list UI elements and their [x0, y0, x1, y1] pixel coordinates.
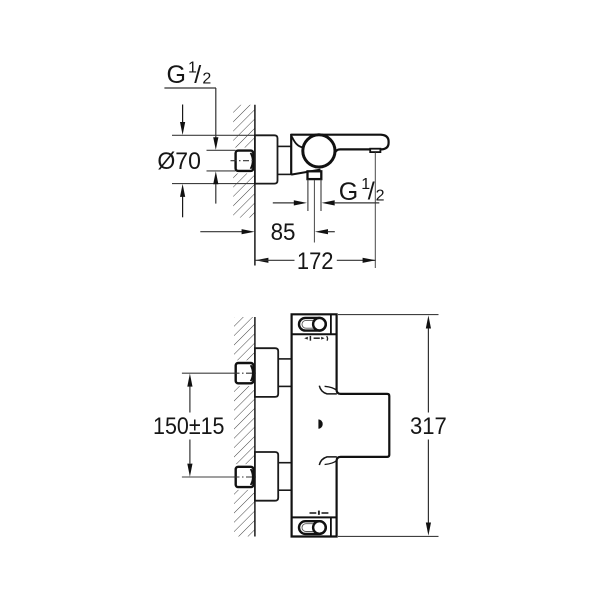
O70 up arrow [182, 196, 184, 217]
lower escutcheon (plan) [255, 452, 278, 501]
wall face line (plan) [254, 317, 256, 537]
lower handle hook outer [319, 457, 337, 465]
svg-text:Ø70: Ø70 [157, 148, 201, 175]
union nut (side view) [236, 151, 254, 171]
svg-text:2: 2 [376, 187, 385, 204]
top cap slot (stadium) [299, 318, 326, 331]
outlet pipe left line [307, 179, 309, 211]
body left edge [290, 134, 292, 175]
cartridge circle [303, 135, 335, 167]
top cap bottom line [292, 333, 337, 335]
bottom cap slot inner highlight [302, 524, 319, 532]
top cap knob circle [313, 318, 326, 331]
wall halo around union nut [233, 148, 255, 174]
upper handle hook outer [319, 386, 337, 394]
wall hatch (plan view wall section) [234, 317, 255, 537]
bottom cap top line [292, 516, 337, 518]
lower nut face arc [251, 469, 253, 485]
dim ext line lower connection [182, 476, 234, 478]
dim 85 left arrow [200, 231, 242, 233]
ext line nut top [207, 149, 236, 151]
aerator extension line [374, 153, 376, 269]
dim 150+-15 up arrow [187, 374, 192, 387]
leader vertical + down arrow to nut top [215, 88, 217, 138]
top cap slot inner highlight [302, 320, 319, 328]
svg-text:85: 85 [271, 219, 296, 246]
dim 85 right arrow [315, 229, 328, 234]
upper escutcheon (plan) [255, 348, 278, 397]
svg-text:150±15: 150±15 [153, 413, 225, 440]
top cap inner vertical [330, 314, 332, 334]
svg-text:172: 172 [297, 248, 334, 275]
wall halo around lower nut [233, 464, 254, 490]
nut centerline [231, 160, 258, 162]
ext line nut bottom [207, 170, 236, 172]
svg-text:G: G [339, 178, 358, 206]
wall hatch (top view wall section) [233, 105, 254, 218]
upper handle hook inner [325, 386, 337, 390]
dim 150+-15 down arrow [189, 440, 191, 464]
escutcheon (side view) [255, 135, 278, 183]
button crescent mark [318, 419, 322, 428]
upper shaft lines [278, 358, 291, 360]
dim 172 line with outward arrows [255, 258, 268, 263]
dim ext line escutcheon top (O70) [172, 134, 255, 136]
shaft bottom line [278, 173, 292, 175]
svg-text:317: 317 [410, 413, 447, 440]
body bottom slant [291, 170, 320, 175]
svg-text:2: 2 [202, 70, 211, 87]
G 1/2 outlet dim left arrow [273, 202, 294, 204]
spout aerator [370, 149, 380, 152]
dim ext line escutcheon bottom (O70) [172, 183, 255, 185]
lower shaft lines [278, 462, 291, 464]
thermostat body column with spout protrusion (one outline) [292, 314, 390, 536]
dim 317 ext line bottom [338, 535, 439, 537]
upper nut centerline [234, 372, 258, 374]
lower handle hook inner [325, 460, 337, 464]
outlet pipe centerline [313, 180, 315, 243]
svg-text:/: / [194, 61, 201, 89]
wall face line [254, 105, 256, 266]
G 1/2 outlet dim right arrow with leader [322, 200, 335, 205]
temperature scale ticks (below top cap) [304, 337, 308, 340]
shower outlet nut [308, 171, 322, 179]
svg-text:G: G [167, 61, 186, 89]
dim 317 ext line top [338, 314, 439, 316]
bottom cap knob circle [313, 521, 326, 534]
lower nut centerline [234, 476, 258, 478]
upper nut face arc [251, 365, 253, 381]
body neck saddle curve [292, 137, 303, 148]
lower union nut [236, 467, 254, 487]
flow scale ticks (above bottom cap) [310, 512, 317, 514]
shaft top line [278, 145, 292, 147]
upper union nut [236, 363, 254, 383]
O70 down arrow [182, 105, 184, 124]
outlet pipe right line [320, 179, 322, 211]
up arrow to nut bottom [213, 171, 218, 184]
svg-text:/: / [368, 178, 375, 206]
dim 317 up arrow [426, 315, 431, 328]
faucet body / lever+spout outline [291, 135, 388, 152]
bottom cap inner vertical [330, 517, 332, 536]
dim 317 down arrow [427, 440, 429, 523]
nut face arc [251, 153, 253, 169]
bottom cap slot (stadium) [299, 521, 326, 534]
leader underline for G 1/2 [164, 87, 216, 89]
wall halo around upper nut [233, 360, 254, 386]
dim ext line upper connection [182, 372, 234, 374]
